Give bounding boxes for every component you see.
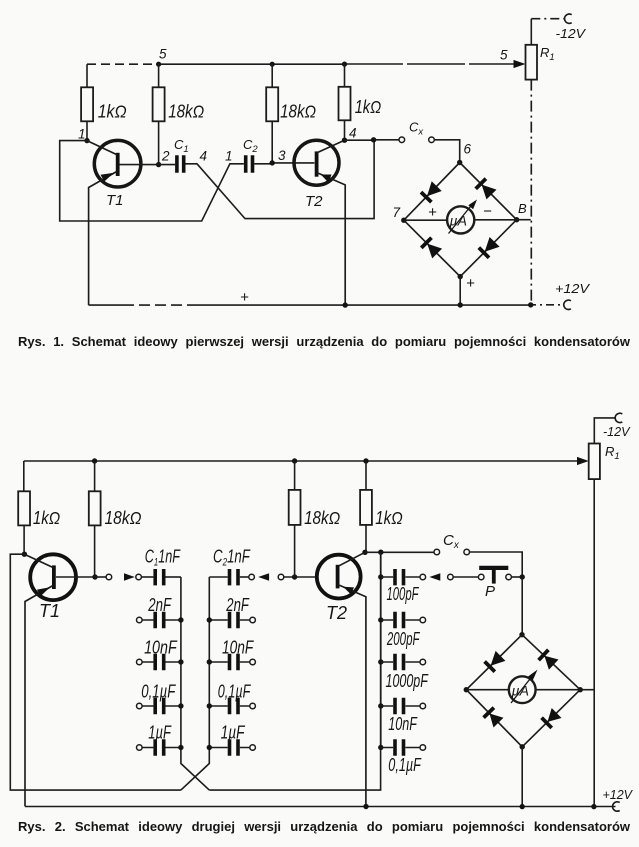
resistor 18kOhm right xyxy=(289,490,301,525)
meter uA circle xyxy=(447,206,474,233)
bridge arm 7-bottom xyxy=(404,220,460,276)
node 3 dot xyxy=(270,160,275,165)
resistor R1 (potentiometer) xyxy=(526,45,538,80)
svg-text:5: 5 xyxy=(159,47,167,62)
open terminal Cx left xyxy=(434,549,440,555)
svg-text:6: 6 xyxy=(464,142,472,157)
wire to P switch xyxy=(453,576,478,578)
resistor 18kOhm left lead xyxy=(94,461,96,491)
svg-text:18kΩ: 18kΩ xyxy=(280,102,316,122)
top -12V rail xyxy=(24,460,579,462)
C1 row3 capacitor 10nF xyxy=(142,661,181,663)
wire to T2 base xyxy=(284,576,317,578)
diode D7 triangle xyxy=(490,714,504,728)
T1 collector wire xyxy=(24,554,53,567)
bridge arm left-bottom xyxy=(466,690,522,747)
Cx row wire from collector xyxy=(365,551,434,553)
open terminal Cx right xyxy=(464,549,470,555)
diode D1 bar top-left xyxy=(421,192,431,202)
diode D6 triangle xyxy=(544,656,558,670)
svg-text:18kΩ: 18kΩ xyxy=(105,508,142,528)
bridge arm bottom-right xyxy=(522,690,580,747)
transistor T2 base bar xyxy=(315,151,319,176)
svg-text:1000pF: 1000pF xyxy=(386,671,429,691)
svg-text:-12V: -12V xyxy=(603,424,631,439)
node junction 18k right dot xyxy=(270,62,275,67)
resistor 1kOhm left lead xyxy=(23,461,25,491)
T2 collector node dot xyxy=(362,550,367,555)
diode D5 bar top-left xyxy=(485,662,495,672)
resistor 18kOhm left lead xyxy=(158,64,160,87)
wire node1 feedback left-down-right xyxy=(60,141,244,221)
node 4 dot xyxy=(342,138,347,143)
rail node dot T2 emitter xyxy=(343,302,348,307)
wire 18k right bottom lead xyxy=(294,525,296,577)
terminal -12V arc xyxy=(615,413,622,422)
C1 row5 capacitor 1uF xyxy=(142,747,181,749)
T1 emitter wire xyxy=(89,172,117,306)
resistor 18kOhm right xyxy=(266,87,278,121)
diode D3 bar bottom-left xyxy=(421,238,431,248)
svg-text:10nF: 10nF xyxy=(144,638,177,658)
C2 contact circle a xyxy=(249,574,255,580)
T1 base lead xyxy=(56,576,95,578)
wire node4 right xyxy=(345,139,399,141)
meter wire 7 to uA xyxy=(404,219,447,221)
rail dot 18k right xyxy=(292,458,297,463)
terminal -12V arc xyxy=(565,14,572,23)
wire 18k left bottom lead xyxy=(158,121,160,164)
svg-text:−: − xyxy=(483,203,492,220)
wire R1 top lead xyxy=(530,19,532,45)
meter wire uA to B xyxy=(474,219,516,221)
svg-text:2nF: 2nF xyxy=(148,595,172,615)
wire R1 bottom vertical xyxy=(593,479,595,807)
caption Rys.2 xyxy=(18,819,630,834)
T1 emitter arrow xyxy=(37,587,50,596)
rail dashed section xyxy=(123,304,195,306)
svg-text:Cx: Cx xyxy=(409,120,424,138)
resistor 18kOhm right lead xyxy=(271,64,273,87)
wire 18k right bottom lead xyxy=(271,121,273,163)
wire C1 row1 to bus xyxy=(165,576,181,578)
rail node dot R1 xyxy=(528,302,533,307)
diode D2 triangle xyxy=(482,185,497,200)
svg-text:3: 3 xyxy=(278,148,286,163)
rail dot 18k left xyxy=(92,458,97,463)
resistor 1kOhm left xyxy=(18,491,30,525)
transistor T1 base bar xyxy=(52,565,56,589)
svg-text:+: + xyxy=(240,289,249,306)
T1 emitter arrow xyxy=(101,173,115,182)
resistor 1kOhm right lead xyxy=(344,64,346,87)
svg-text:C11nF: C11nF xyxy=(145,547,181,569)
svg-text:T2: T2 xyxy=(305,193,323,210)
wire top -12V rail solid section to R1 arrow xyxy=(159,63,345,65)
C1 row2 contact xyxy=(137,617,143,623)
T1 emitter wire xyxy=(25,586,53,807)
C2 row5 capacitor 1uF xyxy=(209,747,250,749)
meter wire right xyxy=(536,689,581,691)
wire 1k left bottom lead xyxy=(23,525,25,554)
open terminal Cx right xyxy=(429,137,435,143)
C1 row4 contact xyxy=(137,703,143,709)
wire top -12V rail dashed left section xyxy=(87,63,159,65)
T2 collector wire xyxy=(339,552,365,566)
wire bridge bottom to rail xyxy=(459,277,461,305)
transistor T1 circle xyxy=(94,140,141,187)
wire P node to bridge top xyxy=(521,577,523,635)
pushbutton P stem xyxy=(492,570,496,584)
node B dot xyxy=(514,217,519,222)
wire 18k left bottom lead xyxy=(94,525,96,577)
Cx row5 0.1uF xyxy=(378,745,383,750)
C1 row2 bus dot xyxy=(178,617,183,622)
pushbutton P left contact xyxy=(478,574,484,580)
RYS2 xyxy=(10,413,633,811)
svg-text:4: 4 xyxy=(349,126,357,141)
svg-text:1kΩ: 1kΩ xyxy=(355,97,382,117)
svg-text:T1: T1 xyxy=(39,601,60,621)
svg-text:4: 4 xyxy=(200,149,208,164)
C1 row2 capacitor 2nF xyxy=(142,619,181,621)
wire R1 top lead xyxy=(594,418,616,444)
svg-text:200pF: 200pF xyxy=(386,629,420,649)
rail dot T2 emitter xyxy=(363,804,368,809)
transistor T2 circle xyxy=(317,555,361,599)
bridge right node dot xyxy=(578,687,583,692)
node 6 dot xyxy=(457,160,462,165)
T2 emitter arrow xyxy=(321,175,332,183)
wire Cx right to P node xyxy=(470,552,523,577)
svg-text:18kΩ: 18kΩ xyxy=(304,508,340,528)
bridge bottom node dot xyxy=(520,744,525,749)
bridge top node dot xyxy=(519,632,524,637)
resistor 1kOhm right lead xyxy=(365,461,367,490)
resistor 18kOhm left xyxy=(89,491,101,525)
diode D1 triangle xyxy=(427,181,442,196)
bridge arm 7-6 xyxy=(404,163,460,221)
svg-text:10nF: 10nF xyxy=(222,638,254,658)
diode D4 bar bottom-right xyxy=(479,248,489,258)
meter uA circle xyxy=(509,676,536,703)
C1 right bus with cross diagonal xyxy=(181,577,209,790)
node 2 dot xyxy=(156,162,161,167)
C2 wiper arrow xyxy=(258,573,269,580)
svg-text:R1: R1 xyxy=(540,45,555,63)
svg-text:Cx: Cx xyxy=(443,532,460,551)
T2 collector wire to node 4 xyxy=(317,140,345,153)
svg-text:0,1µF: 0,1µF xyxy=(218,681,251,701)
rail dot 1k right xyxy=(363,458,368,463)
svg-text:0,1µF: 0,1µF xyxy=(141,681,176,701)
svg-text:1µF: 1µF xyxy=(148,723,171,743)
node 4b dot xyxy=(371,137,376,142)
svg-text:C1: C1 xyxy=(174,137,189,155)
wire bridge bottom to rail xyxy=(521,747,523,807)
diode D6 bar top-right xyxy=(539,650,549,660)
bottom +12V rail xyxy=(25,806,616,808)
transistor T1 circle xyxy=(30,554,76,600)
pushbutton P bar xyxy=(479,566,508,570)
T1 collector node dot xyxy=(22,552,27,557)
switch contact circle a xyxy=(106,574,112,580)
node 7 dot xyxy=(401,218,406,223)
meter needle arrow xyxy=(528,670,537,681)
wiper arrow into R1 xyxy=(577,457,589,465)
transistor T2 circle xyxy=(294,140,339,185)
C1 row5 contact xyxy=(137,745,143,751)
meter needle xyxy=(511,675,534,704)
svg-text:P: P xyxy=(485,583,495,600)
capacitor C1 plates xyxy=(177,155,184,172)
wire C2 right to node3 and T2 base xyxy=(254,162,314,165)
wire 1k right bottom lead xyxy=(344,120,346,140)
wire dash-dot to -12V terminal xyxy=(531,18,565,20)
wire node2 to C1 xyxy=(159,164,176,166)
wire to C1 row1 xyxy=(141,576,153,578)
wire B to R1 vertical xyxy=(517,219,531,221)
diode D5 triangle xyxy=(491,651,506,666)
svg-text:1: 1 xyxy=(225,149,233,164)
switch contact circle b xyxy=(136,574,142,580)
pushbutton P right contact xyxy=(506,574,512,580)
C2 row3 capacitor 10nF xyxy=(209,661,250,663)
svg-text:R1: R1 xyxy=(605,444,620,462)
meter needle xyxy=(449,204,473,234)
Cx row1 100pF xyxy=(378,574,383,579)
Cx bank left bus xyxy=(380,552,382,747)
P node dot xyxy=(520,574,525,579)
svg-text:100pF: 100pF xyxy=(387,584,420,604)
T2 emitter arrow xyxy=(343,587,354,595)
resistor R1 xyxy=(589,444,600,480)
rail dot R1 xyxy=(591,804,596,809)
wire R1 bottom dash-dot vertical xyxy=(530,80,532,305)
bridge left node dot xyxy=(464,687,469,692)
C2 row4 capacitor 0.1uF xyxy=(209,705,250,707)
svg-text:T1: T1 xyxy=(106,192,124,209)
svg-text:+12V: +12V xyxy=(603,787,634,802)
T2 emitter wire xyxy=(317,173,345,306)
transistor T1 base bar xyxy=(116,153,120,176)
C2 row1 wire xyxy=(209,576,227,578)
wire C1 right to cross diagonal xyxy=(185,140,374,219)
T1 collector wire from node 1 xyxy=(87,141,117,155)
Cx row3 1000pF xyxy=(378,659,383,664)
svg-text:18kΩ: 18kΩ xyxy=(168,102,204,122)
wire C2 row1 right xyxy=(240,576,249,578)
rail dash-dot right xyxy=(528,304,562,306)
node junction 1k right dot xyxy=(342,62,347,67)
meter needle arrow xyxy=(468,200,477,210)
diode D8 bar bottom-right xyxy=(542,718,552,728)
svg-text:T2: T2 xyxy=(326,603,347,623)
svg-text:7: 7 xyxy=(393,205,401,220)
svg-text:5: 5 xyxy=(500,48,508,63)
resistor 1kOhm right xyxy=(360,490,372,525)
rail node dot bridge xyxy=(458,302,463,307)
svg-text:B: B xyxy=(518,201,527,216)
switch wiper arrow xyxy=(124,573,135,580)
bridge arm top-right xyxy=(522,635,580,690)
bridge arm 6-B xyxy=(460,163,517,220)
terminal +12V arc xyxy=(564,300,571,309)
C2 contact circle b xyxy=(278,574,284,580)
wiper arrow Cx row1 xyxy=(429,573,440,580)
capacitor C1 1nF plates xyxy=(155,569,164,585)
svg-text:0,1µF: 0,1µF xyxy=(388,755,421,775)
resistor 18kOhm left xyxy=(153,87,165,121)
svg-text:1kΩ: 1kΩ xyxy=(98,102,127,122)
terminal +12V arc xyxy=(613,802,620,811)
diode D3 triangle xyxy=(427,244,442,259)
wire 1k left bottom lead xyxy=(86,121,88,140)
cross feedback right horizontal to T2 collector bus xyxy=(209,552,380,790)
resistor 18kOhm right lead xyxy=(294,461,296,490)
resistor 1kOhm left lead top xyxy=(86,64,88,87)
C1 row3 contact xyxy=(137,659,143,665)
svg-text:+: + xyxy=(428,204,437,221)
svg-text:C21nF: C21nF xyxy=(213,547,251,569)
T1 base lead to node 2 xyxy=(120,164,159,166)
wire bridge right to R1 vertical xyxy=(580,689,594,691)
C1 row4 bus dot xyxy=(178,703,183,708)
bridge arm left-top xyxy=(466,635,522,690)
diode D4 triangle xyxy=(485,237,500,252)
svg-text:1kΩ: 1kΩ xyxy=(33,508,60,528)
contact circle before P xyxy=(448,574,454,580)
svg-text:10nF: 10nF xyxy=(388,714,417,734)
svg-text:1: 1 xyxy=(78,127,86,142)
RYS1 xyxy=(60,14,591,310)
wire 1k right bottom lead xyxy=(365,525,367,552)
svg-text:-12V: -12V xyxy=(556,26,587,41)
rail dot bridge bottom xyxy=(520,804,525,809)
C2 row2 capacitor 2nF xyxy=(209,619,250,621)
svg-text:+: + xyxy=(466,275,475,292)
wire Cx right to node 6 xyxy=(434,140,459,160)
node 5 dot xyxy=(156,62,161,67)
svg-text:2nF: 2nF xyxy=(226,595,250,615)
C2 left bus with cross diagonal xyxy=(181,577,209,790)
caption Rys.1 xyxy=(18,334,630,349)
resistor 1kOhm right xyxy=(339,87,351,121)
node 1 dot xyxy=(84,138,89,143)
cross feedback left horizontal and vertical to T1 collector xyxy=(10,554,181,790)
diode D2 bar top-right xyxy=(476,179,486,189)
rail solid section xyxy=(195,304,528,306)
T2 base node dot xyxy=(292,574,297,579)
svg-text:C2: C2 xyxy=(243,137,258,155)
Cx row4 10nF xyxy=(378,703,383,708)
diode D8 triangle xyxy=(548,708,562,722)
C1 row5 bus dot xyxy=(178,745,183,750)
resistor 1kOhm left xyxy=(81,87,93,121)
Cx row2 200pF xyxy=(378,617,383,622)
bridge bottom node dot xyxy=(458,274,463,279)
Cx bus top dot xyxy=(378,550,383,555)
svg-text:+12V: +12V xyxy=(555,281,590,296)
C1 row3 bus dot xyxy=(178,659,183,664)
meter wire left xyxy=(466,689,509,691)
svg-text:1µF: 1µF xyxy=(221,723,246,743)
bridge arm bottom-B xyxy=(460,220,516,277)
svg-text:2: 2 xyxy=(161,149,170,164)
svg-text:1kΩ: 1kΩ xyxy=(375,508,403,528)
transistor T2 base bar xyxy=(336,565,340,589)
wire P to node xyxy=(511,576,522,578)
T2 emitter wire xyxy=(340,585,366,806)
T1 base node dot xyxy=(92,574,97,579)
capacitor C2 plates xyxy=(246,155,253,172)
C1 row4 capacitor 0.1uF xyxy=(142,705,181,707)
wire base dot to contact xyxy=(95,576,106,578)
wiper arrow into R1 xyxy=(514,60,526,68)
open terminal Cx left xyxy=(399,137,405,143)
capacitor C2 1nF plates xyxy=(230,569,239,585)
diode D7 bar bottom-left xyxy=(484,708,494,718)
bottom +12V rail xyxy=(89,304,123,306)
